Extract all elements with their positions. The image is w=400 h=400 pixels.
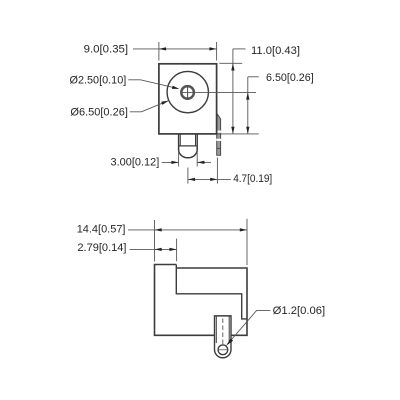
side solder lug (gray tab) behind body right edge <box>216 113 221 155</box>
side center pin (masks body bottom edge) <box>215 316 232 358</box>
dim 6.50 (right) <box>247 77 249 134</box>
center pin (front view, below body) <box>179 134 198 158</box>
side body outline <box>155 265 248 336</box>
svg-text:Ø6.50[0.26]: Ø6.50[0.26] <box>70 106 128 118</box>
center mark <box>187 87 189 99</box>
front body square <box>159 64 217 134</box>
svg-text:9.0[0.35]: 9.0[0.35] <box>84 43 129 55</box>
pin hole ring <box>181 86 194 99</box>
center line extending right <box>181 91 256 93</box>
pin hole <box>218 345 228 355</box>
pin center lines <box>222 319 224 345</box>
internal step lines <box>176 265 247 319</box>
svg-text:Ø2.50[0.10]: Ø2.50[0.10] <box>70 75 127 87</box>
dim 14.4 <box>154 220 156 262</box>
dim 11.0 <box>219 62 242 64</box>
dim 2.79 <box>130 248 177 250</box>
dim 9.0 line <box>133 48 217 50</box>
svg-text:14.4[0.57]: 14.4[0.57] <box>77 223 126 235</box>
svg-text:3.00[0.12]: 3.00[0.12] <box>111 157 160 169</box>
svg-text:6.50[0.26]: 6.50[0.26] <box>266 72 314 84</box>
svg-text:Ø1.2[0.06]: Ø1.2[0.06] <box>273 305 326 317</box>
svg-text:2.79[0.14]: 2.79[0.14] <box>77 242 126 254</box>
dim 4.7 <box>187 168 189 184</box>
bottom edge extension to right <box>218 133 259 135</box>
svg-text:4.7[0.19]: 4.7[0.19] <box>233 173 272 185</box>
svg-text:11.0[0.43]: 11.0[0.43] <box>251 45 300 57</box>
dim 9.0 extension lines <box>158 42 160 61</box>
barrel outer circle <box>167 71 208 112</box>
pin edge extension lines <box>178 150 180 166</box>
